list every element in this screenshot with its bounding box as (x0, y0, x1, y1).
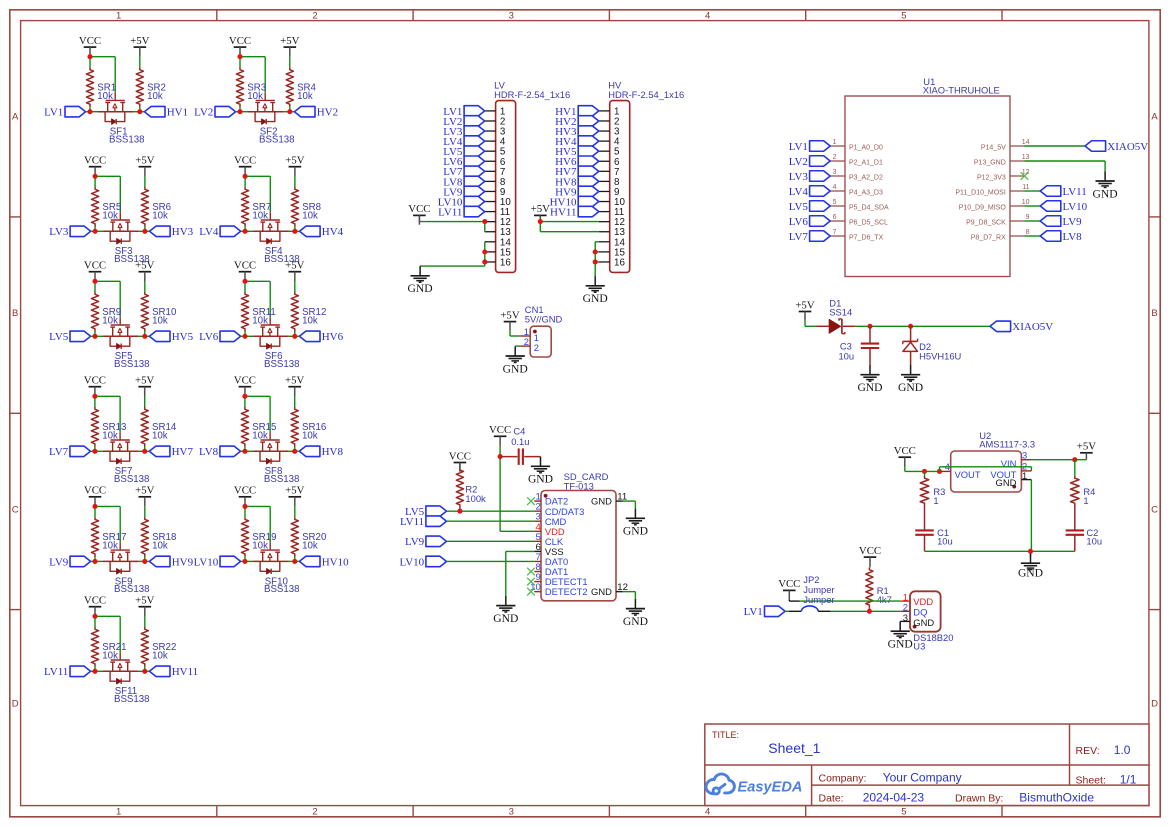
connector CN1 5V//GND (520, 304, 562, 357)
ground GND (P13) (1093, 171, 1118, 200)
junction LV6 node (242, 334, 247, 339)
resistor SR20 10k (291, 517, 327, 556)
svg-text:GND: GND (591, 586, 612, 597)
resistor R3 1 (920, 471, 945, 530)
transistor SF7 BSS138 (110, 432, 149, 485)
svg-text:+5V: +5V (285, 485, 304, 497)
svg-text:11: 11 (1022, 184, 1029, 191)
wire VCC to SR17 and gate (95, 506, 120, 561)
svg-text:1/1: 1/1 (1120, 773, 1137, 787)
connector LV HDR-F-2.54_1x16 (485, 80, 570, 273)
jumper JP2 (785, 574, 834, 611)
junction VCC node (LV2 cell) (237, 54, 242, 59)
power flag +5V (D1) (795, 299, 814, 321)
svg-text:HDR-F-2.54_1x16: HDR-F-2.54_1x16 (608, 89, 684, 100)
svg-text:VCC: VCC (84, 375, 106, 387)
resistor SR17 10k (91, 517, 126, 556)
sheet text (1076, 773, 1137, 787)
junction HV3 node (142, 229, 147, 234)
net flag LV6 (199, 331, 240, 343)
no-connect pin8 (527, 568, 535, 576)
power flag VCC (LV1 cell) (79, 35, 101, 57)
svg-text:Your Company: Your Company (883, 771, 962, 785)
wire LV11 to CMD (447, 520, 535, 522)
svg-text:LV11: LV11 (1063, 186, 1087, 198)
junction LV9 node (92, 559, 97, 564)
svg-text:LV11: LV11 (438, 207, 462, 219)
capacitor C2 10u (1066, 527, 1102, 551)
net flag HV11 (149, 666, 198, 678)
svg-text:D: D (12, 699, 19, 710)
junction HV2 node (287, 109, 292, 114)
svg-text:LV11: LV11 (400, 516, 424, 528)
svg-text:10k: 10k (147, 91, 163, 102)
net flag HV2 (pin 2) (555, 116, 599, 128)
net flag LV2 (pin 2) (443, 116, 484, 128)
junction D2 node (908, 324, 913, 329)
ground GND (LV header) (408, 266, 433, 295)
svg-text:LV5: LV5 (49, 331, 69, 343)
wire +5V to HV pins 12-13 (540, 215, 599, 231)
resistor SR19 10k (241, 517, 276, 556)
net flag HV11 (pin 11) (550, 206, 599, 218)
svg-text:1: 1 (116, 806, 121, 817)
svg-text:P9_D8_SCK: P9_D8_SCK (966, 219, 1006, 226)
svg-text:Jumper: Jumper (803, 594, 834, 605)
diode D2 H5VH16U zener (903, 326, 962, 365)
ground GND (HV header) (583, 276, 608, 305)
net flag LV3 (U1 pin 3) (789, 171, 830, 183)
wire P13 to GND (1025, 161, 1106, 171)
junction VCC node (LV9 cell) (92, 504, 97, 509)
power flag +5V (HV3 cell) (135, 155, 154, 177)
net flag LV11 (44, 666, 91, 678)
svg-text:3: 3 (903, 612, 908, 623)
ic U1 XIAO-THRUHOLE (831, 76, 1030, 277)
svg-text:16: 16 (500, 257, 511, 268)
wire VCC to SR5 and gate (95, 176, 120, 231)
no-connect pin9 (527, 578, 535, 586)
wire VCC to U3 VDD (789, 600, 901, 601)
svg-text:1: 1 (833, 139, 837, 146)
junction HV9 node (142, 559, 147, 564)
svg-text:10k: 10k (302, 430, 318, 441)
svg-text:H5VH16U: H5VH16U (919, 351, 961, 362)
junction VCC node (LV11 cell) (92, 614, 97, 619)
svg-text:VCC: VCC (778, 578, 800, 590)
svg-text:1: 1 (1022, 470, 1027, 481)
svg-text:2024-04-23: 2024-04-23 (863, 791, 925, 805)
wire U3 pin3 to GND (899, 620, 901, 622)
svg-text:100k: 100k (465, 493, 486, 504)
transistor SF8 BSS138 (260, 432, 299, 485)
wire LV2-HV2 channel (236, 111, 295, 113)
company text (819, 771, 962, 785)
svg-text:+5V: +5V (1077, 441, 1096, 453)
svg-text:BismuthOxide: BismuthOxide (1019, 791, 1094, 805)
svg-text:5: 5 (901, 10, 906, 21)
wire LV9-HV9 channel (91, 560, 150, 562)
svg-text:16: 16 (614, 257, 625, 268)
svg-text:C: C (1151, 504, 1158, 515)
net flag LV9 (U1) (1040, 216, 1082, 228)
power flag VCC (LV9 cell) (84, 485, 106, 507)
svg-text:LV11: LV11 (44, 666, 68, 678)
svg-text:+5V: +5V (285, 155, 304, 167)
junction LV10 node (242, 559, 247, 564)
power flag +5V (HV11 cell) (135, 595, 154, 617)
transistor SF5 BSS138 (110, 317, 149, 370)
resistor SR22 10k (141, 627, 176, 666)
net flag LV8 (U1) (1040, 231, 1082, 243)
svg-text:GND: GND (583, 292, 608, 305)
ground GND (D2) (898, 365, 923, 394)
wire VIN to +5V (1031, 459, 1086, 461)
svg-text:3: 3 (1022, 449, 1027, 460)
svg-text:+5V: +5V (531, 203, 550, 215)
svg-text:B: B (1151, 308, 1157, 319)
net flag HV6 (pin 6) (555, 156, 599, 168)
junction ground bus (1028, 549, 1033, 554)
resistor SR1 10k (86, 67, 116, 106)
net flag LV9 (SD) (405, 536, 446, 548)
svg-text:GND: GND (623, 525, 648, 538)
connector SD_CARD TF-013 (530, 471, 628, 601)
power flag +5V (HV5 cell) (135, 260, 154, 282)
connector HV HDR-F-2.54_1x16 (599, 80, 684, 273)
wire LV6-HV6 channel (241, 335, 300, 337)
svg-text:LV2: LV2 (194, 107, 213, 119)
svg-text:10u: 10u (838, 351, 854, 362)
ground GND (VSS) (493, 596, 518, 625)
net flag LV4 (pin 4) (443, 136, 484, 148)
svg-text:+5V: +5V (130, 35, 149, 47)
svg-text:HV2: HV2 (317, 107, 338, 119)
net flag LV2 (U1 pin 2) (789, 156, 830, 168)
junction HV8 node (292, 449, 297, 454)
svg-text:5: 5 (901, 806, 906, 817)
net flag LV10 (U1) (1040, 201, 1087, 213)
wire +5V to SR16 (294, 396, 296, 451)
wire +5V to SR4 (289, 56, 291, 111)
svg-text:+5V: +5V (135, 260, 154, 272)
junction R2-LV5 (457, 509, 462, 514)
svg-text:HV4: HV4 (322, 226, 344, 238)
power flag +5V (HV10 cell) (285, 485, 304, 507)
net flag LV6 (pin 6) (443, 156, 484, 168)
svg-text:GND: GND (503, 362, 528, 375)
resistor SR5 10k (92, 187, 122, 226)
resistor SR8 10k (291, 187, 321, 226)
junction VCC node (LV7 cell) (92, 394, 97, 399)
power flag VCC (LV8 cell) (234, 375, 256, 397)
svg-text:P11_D10_MOSI: P11_D10_MOSI (955, 189, 1006, 196)
junction HV11 node (142, 669, 147, 674)
svg-text:P2_A1_D1: P2_A1_D1 (849, 159, 883, 166)
svg-text:B: B (12, 308, 18, 319)
power flag VCC (LV6 cell) (234, 260, 256, 282)
wire LV5-HV5 channel (91, 335, 150, 337)
svg-text:9: 9 (1026, 214, 1030, 221)
resistor SR13 10k (91, 407, 126, 446)
svg-text:Drawn By:: Drawn By: (955, 793, 1003, 805)
wire +5V to SR12 (294, 281, 296, 336)
wire VCC to SR11 and gate (245, 281, 270, 336)
net flag HV3 (150, 226, 194, 238)
svg-text:2: 2 (524, 336, 529, 347)
svg-text:C4: C4 (513, 426, 525, 437)
net flag LV11 (pin 11) (438, 206, 485, 218)
svg-text:HDR-F-2.54_1x16: HDR-F-2.54_1x16 (494, 89, 570, 100)
wire +5V to D1 (805, 321, 815, 327)
svg-text:P6_D5_SCL: P6_D5_SCL (849, 219, 888, 226)
svg-text:HV11: HV11 (550, 207, 576, 219)
svg-text:LV10: LV10 (400, 556, 425, 568)
svg-text:GND: GND (857, 381, 882, 394)
svg-text:XIAO5V: XIAO5V (1012, 321, 1053, 333)
wire VCC to SR21 and gate (95, 616, 120, 671)
resistor SR15 10k (241, 407, 276, 446)
svg-text:U3: U3 (913, 640, 925, 651)
net flag HV4 (300, 226, 344, 238)
resistor SR3 10k (236, 67, 266, 106)
svg-text:BSS138: BSS138 (264, 474, 300, 485)
svg-text:XIAO5V: XIAO5V (1107, 141, 1148, 153)
svg-text:2: 2 (534, 342, 539, 353)
resistor SR10 10k (141, 292, 177, 331)
resistor SR7 10k (242, 187, 272, 226)
power flag VCC (U2) (894, 445, 916, 467)
no-connect pin10 (527, 588, 535, 596)
wire VCC to VDD pin4 (500, 446, 534, 532)
svg-text:LV1: LV1 (789, 141, 808, 153)
svg-text:GND: GND (493, 612, 518, 625)
net flag LV1 (44, 106, 85, 118)
wire VCC to SR3 and gate (240, 56, 265, 111)
svg-text:2: 2 (312, 806, 317, 817)
power flag +5V (HV2 cell) (280, 35, 299, 57)
svg-text:10: 10 (1022, 199, 1030, 206)
svg-text:5V//GND: 5V//GND (525, 313, 563, 324)
net flag HV6 (299, 331, 343, 343)
svg-text:GND: GND (1018, 566, 1043, 579)
transistor SF4 BSS138 (260, 212, 299, 265)
svg-text:LV7: LV7 (789, 231, 809, 243)
net flag HV5 (149, 331, 193, 343)
wire LV1-HV1 channel (86, 111, 145, 113)
wire SD pin12 to GND (623, 592, 636, 599)
svg-text:10k: 10k (302, 210, 318, 221)
junction HV1 node (137, 109, 142, 114)
net flag LV7 (U1 pin 7) (789, 231, 830, 243)
junction LV pin16 (482, 259, 487, 264)
power flag +5V (HV7 cell) (135, 375, 154, 397)
svg-text:10k: 10k (152, 315, 168, 326)
svg-text:REV:: REV: (1076, 745, 1100, 757)
net flag HV10 (pin 10) (550, 196, 599, 208)
junction VCC node (LV3 cell) (93, 174, 98, 179)
net flag LV8 (pin 8) (443, 176, 484, 188)
svg-text:HV10: HV10 (322, 556, 349, 568)
diode D1 SS14 (815, 297, 855, 333)
net flag HV7 (pin 7) (555, 166, 599, 178)
svg-text:Company:: Company: (819, 773, 867, 785)
svg-text:HV3: HV3 (172, 226, 194, 238)
net flag LV10 (194, 556, 241, 568)
junction VCC node (LV4 cell) (243, 174, 248, 179)
resistor SR14 10k (141, 407, 177, 446)
junction LV pin15 (482, 249, 487, 254)
svg-text:P13_GND: P13_GND (974, 159, 1006, 166)
svg-text:LV6: LV6 (199, 331, 219, 343)
svg-text:LV6: LV6 (789, 216, 809, 228)
wire VCC to SR7 and gate (245, 176, 270, 231)
net flag LV9 (pin 9) (443, 186, 484, 198)
wire SD pin11 to GND (623, 501, 636, 509)
svg-text:P1_A0_D0: P1_A0_D0 (849, 144, 883, 151)
svg-text:VCC: VCC (894, 445, 916, 457)
svg-text:GND: GND (898, 381, 923, 394)
svg-text:HV8: HV8 (322, 446, 344, 458)
junction HV4 node (292, 229, 297, 234)
svg-text:LV8: LV8 (1063, 231, 1083, 243)
svg-text:10k: 10k (297, 91, 313, 102)
transistor SF3 BSS138 (110, 212, 149, 265)
svg-text:0.1u: 0.1u (511, 436, 529, 447)
svg-text:BSS138: BSS138 (264, 584, 300, 595)
junction VCC node (LV1 cell) (87, 54, 92, 59)
svg-text:AMS1117-3.3: AMS1117-3.3 (979, 439, 1035, 450)
svg-text:+5V: +5V (135, 595, 154, 607)
svg-text:1: 1 (933, 495, 938, 506)
wire JP2 to U3 DQ (830, 610, 900, 612)
ground GND (CN1) (503, 346, 528, 375)
svg-text:1.0: 1.0 (1114, 743, 1131, 757)
net flag LV7 (pin 7) (443, 166, 484, 178)
svg-text:LV3: LV3 (49, 226, 69, 238)
wire HV pins 14-16 to GND (595, 242, 599, 276)
net flag LV7 (49, 446, 90, 458)
junction HV pin15 (593, 249, 598, 254)
svg-text:6: 6 (833, 214, 837, 221)
power flag VCC (LV header) (408, 203, 430, 225)
resistor SR6 10k (141, 187, 171, 226)
svg-text:P4_A3_D3: P4_A3_D3 (849, 189, 883, 196)
junction HV7 node (142, 449, 147, 454)
transistor SF10 BSS138 (260, 542, 299, 595)
power flag +5V (HV8 cell) (285, 375, 304, 397)
net flag LV11 (SD) (400, 516, 447, 528)
svg-text:+5V: +5V (280, 35, 299, 47)
svg-text:VCC: VCC (234, 485, 256, 497)
svg-text:HV11: HV11 (172, 666, 198, 678)
svg-text:LV9: LV9 (405, 536, 425, 548)
svg-text:VCC: VCC (234, 260, 256, 272)
svg-text:GND: GND (1093, 187, 1118, 200)
net flag HV8 (299, 446, 343, 458)
svg-text:VCC: VCC (859, 545, 881, 557)
svg-text:10k: 10k (152, 650, 168, 661)
power flag +5V (HV header) (531, 203, 550, 225)
junction HV5 node (142, 334, 147, 339)
svg-text:14: 14 (1022, 139, 1030, 146)
wire VCC to VOUT pin4 (905, 467, 941, 472)
svg-text:LV9: LV9 (49, 556, 69, 568)
junction HV6 node (292, 334, 297, 339)
svg-text:10u: 10u (937, 536, 953, 547)
net flag LV3 (pin 3) (443, 126, 484, 138)
wire P11 to LV11 (1025, 190, 1041, 192)
svg-text:VDD: VDD (913, 596, 933, 607)
ground GND (SD pin11) (623, 509, 648, 538)
net flag LV5 (pin 5) (443, 146, 484, 158)
wire +5V to SR2 (139, 56, 141, 111)
svg-text:LV5: LV5 (789, 201, 809, 213)
svg-text:BSS138: BSS138 (114, 359, 150, 370)
wire LV9 to CLK (447, 540, 535, 542)
wire P10 to LV10 (1025, 205, 1041, 207)
power flag VCC (JP2) (778, 578, 800, 600)
svg-text:5: 5 (833, 199, 837, 206)
svg-text:GND: GND (623, 615, 648, 628)
wire LV8-HV8 channel (241, 450, 300, 452)
svg-text:10k: 10k (152, 541, 168, 552)
svg-text:4: 4 (705, 806, 710, 817)
net flag XIAO5V (D1 rail) (990, 321, 1053, 333)
svg-text:2: 2 (903, 602, 908, 613)
power flag VCC (LV11 cell) (84, 595, 106, 617)
svg-text:7: 7 (833, 229, 837, 236)
net flag LV1 (pin 1) (443, 106, 484, 118)
svg-text:2: 2 (312, 10, 317, 21)
wire LV10 to DAT0 (447, 560, 535, 562)
power flag +5V (HV6 cell) (285, 260, 304, 282)
wire VCC to LV pins 12-13 (419, 215, 484, 231)
svg-text:10u: 10u (1086, 536, 1102, 547)
rev text (1076, 743, 1131, 757)
svg-text:SS14: SS14 (829, 307, 852, 318)
svg-text:TITLE:: TITLE: (712, 730, 739, 740)
svg-text:2: 2 (833, 154, 837, 161)
resistor SR18 10k (141, 517, 176, 556)
svg-text:4k7: 4k7 (877, 594, 892, 605)
transistor SF2 BSS138 (255, 93, 294, 146)
resistor SR9 10k (91, 292, 121, 331)
net flag HV7 (149, 446, 193, 458)
junction VCC-C4 (498, 454, 503, 459)
resistor SR21 10k (91, 627, 126, 666)
svg-text:VOUT: VOUT (955, 469, 981, 480)
svg-text:GND: GND (996, 477, 1017, 488)
ground GND (U2) (1021, 554, 1040, 570)
wire D1 to XIAO5V (855, 325, 990, 327)
no-connect pin1 (527, 497, 535, 505)
svg-text:GND: GND (913, 617, 934, 628)
svg-text:GND: GND (591, 496, 612, 507)
resistor SR16 10k (291, 407, 326, 446)
svg-text:HV1: HV1 (167, 107, 188, 119)
transistor SF6 BSS138 (260, 317, 299, 370)
junction LV2 node (237, 109, 242, 114)
svg-text:HV9: HV9 (172, 556, 194, 568)
net flag LV5 (U1 pin 5) (789, 201, 830, 213)
svg-text:10k: 10k (302, 315, 318, 326)
svg-text:LV10: LV10 (1063, 201, 1088, 213)
net flag HV1 (144, 106, 188, 118)
wire +5V to SR20 (294, 506, 296, 561)
junction LV pin12 (482, 219, 487, 224)
svg-text:10k: 10k (152, 210, 168, 221)
